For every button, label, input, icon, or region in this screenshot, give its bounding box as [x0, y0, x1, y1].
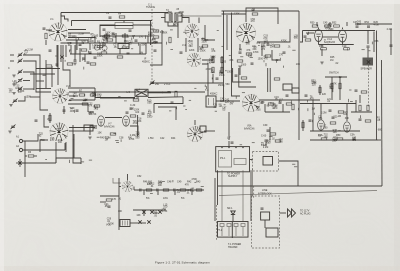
- resistor R21: [274, 45, 280, 47]
- svg-text:1M: 1M: [219, 105, 222, 108]
- wire: [30, 73, 55, 75]
- wire: [55, 142, 57, 163]
- wire: [198, 18, 200, 24]
- svg-text:10K: 10K: [136, 214, 141, 217]
- svg-text:10K: 10K: [97, 96, 102, 99]
- capacitor C61: [261, 208, 264, 209]
- svg-text:680: 680: [267, 142, 272, 145]
- svg-text:120K: 120K: [88, 40, 94, 43]
- resistor R49: [302, 122, 304, 128]
- value labels C54 row: [136, 203, 168, 217]
- wire: [119, 49, 121, 55]
- capacitor C33: [305, 95, 308, 96]
- interlock dashed box: [252, 196, 280, 248]
- resistor R17: [221, 57, 223, 63]
- svg-text:10K: 10K: [343, 113, 348, 116]
- lead ticks chain: [150, 180, 204, 193]
- wire: [64, 143, 66, 150]
- svg-text:560: 560: [93, 46, 98, 49]
- wire: [331, 77, 333, 100]
- resistor R5c: [90, 63, 96, 65]
- wire: [355, 23, 392, 25]
- resistor R3: [97, 45, 103, 47]
- svg-text:SR-1: SR-1: [227, 207, 233, 210]
- wire: [84, 54, 86, 62]
- wire: [100, 35, 148, 37]
- wire: [23, 55, 40, 70]
- switch box S1: [84, 125, 93, 131]
- wire: [221, 170, 223, 221]
- lead ticks RF band: [63, 34, 145, 52]
- resistor R16c: [175, 91, 177, 97]
- IF transformer T2 primary: [165, 13, 172, 22]
- wire: [10, 54, 14, 56]
- svg-text:470K: 470K: [374, 23, 380, 26]
- wire dashed gang: [151, 9, 153, 83]
- wire: [157, 190, 159, 195]
- resistor R5b: [81, 49, 87, 51]
- capacitor C60: [265, 140, 268, 141]
- PT1 windings: [220, 224, 224, 227]
- wire: [367, 31, 369, 45]
- svg-text:150K: 150K: [162, 32, 168, 35]
- wire: [312, 100, 314, 131]
- resistor R23: [169, 37, 171, 43]
- trimmer C1B: [18, 78, 23, 83]
- ground trimmer A: [12, 75, 15, 77]
- wire: [261, 46, 263, 56]
- value labels right of V6: [263, 34, 300, 66]
- svg-text:680: 680: [189, 45, 194, 48]
- wire: [321, 49, 323, 56]
- svg-text:150K: 150K: [153, 41, 159, 44]
- lead ticks osc band: [68, 89, 139, 115]
- tube V11 audio amp: [315, 30, 323, 42]
- svg-text:1M: 1M: [338, 115, 341, 118]
- wire: [65, 45, 67, 57]
- capacitor C18: [239, 52, 242, 53]
- wire: [69, 130, 84, 132]
- wire: [18, 96, 25, 101]
- svg-text:1M: 1M: [330, 59, 333, 62]
- capacitor C5: [74, 60, 77, 61]
- value labels filter row: [318, 134, 356, 143]
- speaker transformer blob: [363, 58, 374, 66]
- svg-text:680: 680: [352, 139, 357, 142]
- wire: [222, 13, 247, 15]
- capacitor C2: [109, 17, 112, 18]
- svg-text:.005: .005: [256, 108, 261, 111]
- resistor R11: [110, 133, 116, 135]
- capacitor C3b: [43, 74, 46, 75]
- resistor R48: [338, 111, 344, 113]
- wire: [228, 141, 230, 147]
- wire: [202, 64, 208, 96]
- lead ticks below V1: [55, 50, 88, 70]
- value labels mixer right: [133, 97, 153, 126]
- trimmer C1E: [11, 125, 16, 130]
- value labels V3 area: [39, 128, 63, 144]
- trimmer C1D: [13, 99, 18, 104]
- resistor R3b: [104, 35, 110, 37]
- tube V13 detector: [122, 181, 133, 192]
- svg-text:150K: 150K: [108, 223, 114, 226]
- terminal E2: [19, 148, 22, 151]
- svg-text:TUNING: TUNING: [146, 6, 155, 9]
- wire: [68, 29, 86, 31]
- svg-text:10K: 10K: [112, 36, 117, 39]
- tube V9 limiter: [318, 120, 325, 130]
- svg-text:470K: 470K: [191, 178, 197, 181]
- value labels RF row: [67, 32, 153, 50]
- wire: [137, 115, 139, 136]
- capacitor C40: [309, 120, 312, 121]
- svg-text:1M: 1M: [105, 139, 108, 142]
- svg-text:.005: .005: [221, 60, 226, 63]
- svg-text:270: 270: [261, 48, 266, 51]
- wire: [61, 42, 163, 44]
- svg-text:560: 560: [329, 28, 334, 31]
- wire: [161, 30, 163, 43]
- resistor R2: [45, 33, 47, 39]
- lead ticks IF top: [151, 30, 224, 50]
- capacitor C20: [216, 78, 219, 79]
- wire: [161, 17, 165, 19]
- value labels T4: [213, 98, 235, 112]
- svg-text:2.2M: 2.2M: [387, 28, 392, 31]
- wire: [153, 104, 155, 114]
- value labels det top row: [98, 131, 141, 141]
- wire: [282, 104, 284, 112]
- wire: [272, 50, 280, 60]
- capacitor C5A: [353, 138, 356, 139]
- resistor R37: [365, 120, 371, 122]
- power transformer PT-1 box: [218, 222, 249, 238]
- wire: [320, 104, 322, 119]
- scan shading right edge: [394, 0, 400, 271]
- wire: [65, 142, 67, 152]
- svg-text:1500: 1500: [241, 64, 247, 67]
- wire: [204, 130, 215, 132]
- coil L3: [60, 55, 63, 58]
- tube V3 mixer: [50, 123, 69, 142]
- tube V5B mixer: [187, 126, 203, 142]
- lead ticks crystal area: [162, 88, 196, 111]
- wire: [94, 88, 96, 100]
- resistor R9: [94, 105, 100, 107]
- resistor R18: [221, 67, 223, 73]
- wire: [182, 18, 189, 24]
- capacitor C19: [251, 63, 254, 64]
- wire: [194, 120, 196, 125]
- wire: [325, 76, 347, 78]
- tube V2 oscillator: [52, 88, 67, 103]
- wire: [359, 95, 361, 103]
- resistor RB: [321, 138, 327, 140]
- svg-text:1500: 1500: [188, 40, 194, 43]
- value labels limiter lower: [312, 107, 383, 134]
- wire dashed gang: [368, 65, 370, 107]
- coil L4 box: [118, 44, 129, 49]
- wire: [297, 166, 299, 186]
- wire: [231, 13, 233, 56]
- value labels audio row: [325, 21, 392, 31]
- svg-text:150K: 150K: [200, 49, 206, 52]
- wire: [23, 88, 34, 90]
- det box A: [283, 84, 292, 90]
- capacitor C21: [267, 44, 270, 45]
- resistor R41b: [163, 189, 169, 191]
- wire: [80, 158, 82, 164]
- wire: [250, 170, 252, 221]
- wire: [145, 43, 147, 54]
- capacitor C36: [359, 119, 362, 120]
- box left of power choke: [200, 126, 206, 132]
- PS1 inner windings: [219, 151, 232, 168]
- wire: [76, 40, 78, 50]
- wire: [280, 212, 287, 214]
- svg-text:470K: 470K: [55, 128, 61, 131]
- svg-text:10K: 10K: [324, 136, 329, 139]
- svg-text:560: 560: [246, 43, 251, 46]
- svg-text:.005: .005: [69, 110, 74, 113]
- wire: [342, 28, 344, 30]
- svg-text:R58: R58: [374, 40, 379, 43]
- rectifier SR-1: [231, 211, 235, 215]
- wire: [257, 29, 290, 42]
- capacitor C37: [329, 110, 332, 111]
- resistor R10b: [49, 115, 51, 121]
- scan light top-left margin: [0, 0, 400, 4]
- wire: [45, 40, 47, 45]
- wire: [56, 45, 58, 67]
- svg-text:6AV6GX6: 6AV6GX6: [244, 128, 255, 131]
- wire: [279, 161, 299, 166]
- svg-text:47K: 47K: [112, 198, 117, 201]
- wire: [378, 139, 381, 141]
- selenium rect SR: [263, 157, 273, 166]
- svg-text:220: 220: [207, 62, 212, 65]
- tube V7 oval section A: [98, 116, 105, 126]
- capacitor C53 right edge: [390, 45, 393, 46]
- resistor R6 series: [28, 155, 34, 157]
- wire: [90, 126, 97, 135]
- resistor R52: [334, 25, 340, 27]
- resistor R33b: [270, 133, 276, 135]
- svg-text:.005: .005: [94, 108, 99, 111]
- wire: [265, 142, 267, 146]
- wire: [147, 36, 149, 43]
- wire: [56, 158, 81, 163]
- capacitor C54: [142, 210, 145, 213]
- resistor R42: [180, 189, 186, 191]
- svg-text:680: 680: [220, 100, 225, 103]
- wire: [68, 87, 95, 89]
- svg-text:2.2M: 2.2M: [27, 49, 32, 52]
- capacitor C26: [126, 112, 129, 113]
- tube V8 det amplifier: [242, 94, 260, 112]
- svg-text:470K: 470K: [129, 138, 135, 141]
- wire: [23, 134, 38, 141]
- tube V10 limiter: [344, 122, 351, 132]
- svg-text:47K: 47K: [310, 98, 315, 101]
- interlock socket box: [266, 228, 278, 237]
- svg-text:6AQ5GX6: 6AQ5GX6: [324, 41, 336, 44]
- wire: [127, 174, 129, 181]
- value labels V4 left stack: [152, 30, 168, 45]
- wire: [158, 107, 176, 120]
- wire: [69, 99, 95, 101]
- wire: [36, 80, 44, 82]
- svg-text:C38: C38: [119, 137, 124, 140]
- IF transformer T2 secondary: [175, 13, 182, 22]
- wire: [36, 88, 51, 90]
- capacitor C58: [147, 220, 150, 223]
- wire: [23, 149, 65, 151]
- wire: [300, 103, 356, 105]
- wire: [154, 97, 183, 104]
- resistor R14: [117, 56, 123, 58]
- svg-text:1M: 1M: [252, 9, 255, 12]
- svg-text:470K: 470K: [281, 39, 287, 42]
- resistor R2c: [46, 65, 52, 67]
- wire: [70, 53, 146, 55]
- wire: [133, 24, 152, 26]
- capacitor C45: [325, 25, 331, 27]
- wire: [310, 139, 378, 141]
- ground audio: [320, 62, 323, 64]
- wire: [134, 189, 204, 191]
- wire: [267, 68, 269, 92]
- capacitor C10: [76, 110, 79, 111]
- wire: [214, 200, 216, 221]
- wire: [51, 66, 53, 87]
- capacitor C8: [49, 50, 52, 51]
- volume pot R47: [120, 220, 130, 227]
- resistor R27b: [274, 78, 280, 80]
- resistor R8A: [90, 94, 96, 96]
- wire: [310, 130, 360, 132]
- wire: [250, 159, 253, 161]
- wire: [269, 68, 271, 92]
- wire: [259, 99, 298, 101]
- svg-text:100: 100: [135, 111, 140, 114]
- svg-text:47K: 47K: [264, 58, 269, 61]
- capacitor C56: [158, 210, 161, 213]
- ground trimmer C: [12, 93, 15, 95]
- value labels limiter: [310, 76, 342, 103]
- wire: [322, 36, 338, 38]
- resistor R35: [359, 105, 361, 111]
- svg-text:C42: C42: [160, 137, 165, 140]
- wire: [148, 96, 183, 99]
- lead ticks det band: [215, 93, 299, 112]
- capacitor C23: [180, 52, 183, 53]
- svg-text:220: 220: [333, 116, 338, 119]
- wire: [252, 169, 254, 196]
- terminal E1: [19, 139, 22, 142]
- svg-text:C19: C19: [342, 45, 347, 48]
- svg-text:100: 100: [118, 210, 123, 213]
- wire: [316, 22, 318, 26]
- tube V4 IF amplifier: [185, 24, 200, 38]
- ground V6: [238, 66, 241, 68]
- svg-text:10K: 10K: [296, 63, 301, 66]
- value labels volume: [104, 197, 122, 225]
- wire: [264, 220, 266, 228]
- value labels trimmer column: [8, 80, 31, 98]
- wire: [100, 25, 115, 37]
- resistor R50: [312, 25, 318, 27]
- wire: [73, 125, 81, 163]
- svg-text:120K: 120K: [189, 49, 195, 52]
- wire: [40, 140, 48, 152]
- wire: [10, 60, 14, 62]
- svg-text:270: 270: [279, 54, 284, 57]
- svg-text:2.2M: 2.2M: [263, 146, 268, 149]
- capacitor C7b: [129, 30, 132, 31]
- svg-text:C39: C39: [263, 124, 268, 127]
- wire: [69, 91, 205, 93]
- svg-text:INTERLOCK: INTERLOCK: [258, 193, 272, 196]
- wire: [63, 45, 70, 87]
- resistor R33: [330, 122, 336, 124]
- wire: [346, 22, 348, 26]
- lead ticks det top row: [97, 134, 121, 143]
- wire: [130, 222, 146, 224]
- wire: [213, 74, 223, 83]
- crystal Y1 box: [135, 89, 148, 96]
- wire: [355, 100, 357, 112]
- power supply box PS-1: [216, 147, 250, 172]
- resistor R4: [119, 16, 125, 18]
- wire: [233, 68, 251, 82]
- T2 winding dark A: [169, 14, 171, 21]
- wire: [232, 214, 234, 221]
- svg-text:SUPPLY: SUPPLY: [228, 175, 238, 178]
- svg-text:560: 560: [180, 15, 185, 18]
- pot wiper hatches: [122, 221, 124, 226]
- wire: [318, 42, 320, 45]
- svg-text:SPEAKER: SPEAKER: [361, 68, 373, 71]
- resistor R60: [275, 140, 281, 142]
- capacitor C49: [191, 189, 192, 192]
- value labels det chain: [147, 178, 197, 194]
- resistor R30: [331, 83, 333, 89]
- svg-text:2.2M: 2.2M: [130, 134, 135, 137]
- wire: [74, 45, 76, 60]
- capacitor C30: [261, 102, 264, 103]
- wire: [218, 185, 382, 187]
- svg-text:10K: 10K: [98, 132, 103, 135]
- wire: [69, 95, 78, 97]
- svg-text:120K: 120K: [88, 111, 94, 114]
- wire: [113, 178, 121, 183]
- wire: [150, 43, 162, 65]
- lead ticks power top: [240, 137, 298, 167]
- resistor R39: [319, 87, 321, 93]
- capacitor C2b: [103, 29, 106, 30]
- wire: [49, 113, 51, 123]
- wire: [100, 25, 133, 27]
- svg-text:47K: 47K: [211, 50, 216, 53]
- lead ticks terminals: [45, 140, 92, 164]
- coil core A: [94, 45, 99, 50]
- wire: [119, 186, 121, 188]
- svg-text:560: 560: [318, 118, 323, 121]
- svg-text:.005: .005: [147, 102, 152, 105]
- tube V6 converter: [236, 23, 256, 42]
